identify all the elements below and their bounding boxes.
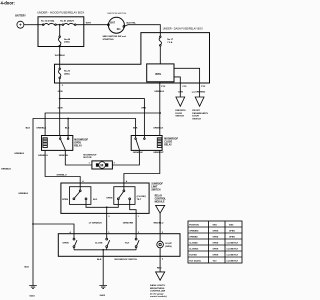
wire GRN/BLK coil feed line — [45, 113, 160, 136]
wire GRN fuse output — [59, 83, 61, 136]
svg-text:UNDER - DASH FUSE/RELAY BOX: UNDER - DASH FUSE/RELAY BOX — [163, 28, 203, 31]
svg-text:No.17: No.17 — [167, 39, 174, 41]
svg-text:No.15 (100A): No.15 (100A) — [41, 20, 55, 23]
wire ICU to passenger door pin — [174, 68, 200, 83]
svg-text:OPEN: OPEN — [62, 199, 69, 201]
svg-text:OPEN: OPEN — [213, 243, 219, 245]
svg-text:LIMIT: LIMIT — [151, 187, 158, 189]
node under-hood junction — [59, 24, 61, 26]
wire GRN/YEL open relay to motor — [65, 150, 92, 165]
svg-text:RED/BLU: RED/BLU — [154, 222, 164, 224]
svg-text:7.5 A: 7.5 A — [167, 41, 173, 44]
svg-text:CLOSE/TILT: CLOSE/TILT — [227, 255, 239, 257]
svg-text:CLOSE/TILT: CLOSE/TILT — [227, 261, 239, 263]
svg-text:MODULE: MODULE — [155, 202, 165, 204]
svg-text:BLK: BLK — [97, 259, 102, 261]
node GRN junction — [59, 98, 61, 100]
svg-text:WHT: WHT — [86, 23, 92, 25]
wire ICU to driver door pin — [174, 77, 180, 83]
svg-text:OPEN: OPEN — [74, 143, 81, 145]
svg-text:CLOSING: CLOSING — [189, 249, 199, 251]
svg-text:4-door:: 4-door: — [1, 1, 15, 6]
svg-text:GRN: GRN — [58, 91, 63, 93]
svg-text:MOONROOF SWITCH: MOONROOF SWITCH — [115, 259, 138, 261]
svg-text:DOOR: DOOR — [175, 113, 182, 115]
fuse No.44 (15A) vertical — [59, 25, 61, 36]
wire GRN/BLK from P10 to close relay coil — [159, 83, 161, 136]
svg-text:GRN: GRN — [58, 107, 63, 109]
svg-text:DOOR: DOOR — [192, 116, 199, 118]
svg-text:M: M — [100, 163, 103, 167]
wire GRN/RED to front passenger's door switch — [199, 83, 201, 97]
svg-text:(+) GRN/RED: (+) GRN/RED — [192, 92, 206, 94]
svg-text:FRONT: FRONT — [192, 110, 200, 112]
wire GRN to driver's door switch — [179, 83, 181, 97]
svg-text:OPEN: OPEN — [229, 237, 235, 239]
svg-text:(15A): (15A) — [64, 41, 70, 44]
svg-text:BLK: BLK — [133, 127, 138, 129]
svg-text:GRN/BLK: GRN/BLK — [18, 193, 28, 195]
svg-text:CLOSE/TILT: CLOSE/TILT — [227, 243, 239, 245]
svg-text:TILT: TILT — [125, 242, 130, 244]
svg-text:BAT: BAT — [110, 21, 115, 24]
svg-text:DRIVER'S: DRIVER'S — [175, 110, 186, 112]
front passenger's door switch arrow — [195, 97, 204, 106]
svg-text:BLK: BLK — [65, 127, 70, 129]
svg-text:OPEN: OPEN — [106, 197, 113, 199]
switch contact OPEN — [73, 234, 75, 239]
svg-text:CONTROL: CONTROL — [155, 199, 167, 201]
moonroof close relay — [131, 136, 162, 151]
svg-text:(20A): (20A) — [64, 73, 70, 76]
svg-text:GRN: GRN — [178, 92, 183, 94]
wire LT GRN/BLK limit to switch — [106, 213, 108, 233]
svg-text:LIGHT: LIGHT — [165, 243, 172, 245]
svg-text:MOONROOF: MOONROOF — [164, 139, 178, 141]
node GRN/BLK junction — [159, 112, 161, 114]
svg-text:GRN/BLK: GRN/BLK — [133, 152, 143, 154]
svg-text:OPENING: OPENING — [189, 231, 199, 233]
svg-text:CLOSE: CLOSE — [95, 242, 103, 244]
svg-text:GRN/BLK: GRN/BLK — [36, 127, 46, 129]
svg-text:BRIGHTNESS: BRIGHTNESS — [150, 288, 165, 290]
svg-text:OPEN: OPEN — [229, 231, 235, 233]
wire BLK to ground — [102, 256, 104, 285]
svg-text:BATTERY: BATTERY — [15, 15, 26, 18]
svg-text:(in the gauge: (in the gauge — [150, 292, 164, 295]
svg-text:INTG: INTG — [155, 73, 161, 76]
switch contact TILT — [135, 234, 137, 239]
ground G402 — [99, 286, 107, 289]
node BLK junction open relay — [67, 118, 69, 120]
moonroof open relay — [42, 136, 73, 151]
sunroof limit switch box — [61, 183, 149, 213]
svg-text:SLD: SLD — [93, 199, 98, 201]
svg-text:TILT (SLDG): TILT (SLDG) — [189, 261, 201, 263]
svg-text:OPEN: OPEN — [213, 249, 219, 251]
svg-text:TILTING: TILTING — [189, 255, 197, 257]
svg-text:SWITCH: SWITCH — [175, 116, 184, 118]
wire battery to under-hood box — [24, 24, 38, 26]
svg-text:CLOSE: CLOSE — [164, 142, 172, 144]
svg-text:GRN: GRN — [141, 107, 146, 109]
svg-text:OPEN: OPEN — [62, 242, 69, 244]
integrated control unit INTG — [147, 64, 174, 82]
switch contact CLOSE — [106, 234, 108, 239]
wire GRN/BLK to moonroof switch — [33, 224, 74, 234]
svg-text:MOTOR: MOTOR — [83, 157, 92, 159]
svg-text:GRN/BLU: GRN/BLU — [57, 175, 67, 177]
svg-text:GRN/BLU: GRN/BLU — [38, 155, 48, 157]
wire WHT/BLK under-hood to under-dash — [59, 47, 61, 64]
switch common bus — [74, 249, 136, 251]
svg-text:LT GRN/BLK: LT GRN/BLK — [89, 222, 103, 224]
svg-text:OPENED: OPENED — [189, 237, 198, 239]
position table — [188, 221, 242, 263]
svg-text:SEE IGNITION SW and: SEE IGNITION SW and — [103, 36, 127, 38]
svg-text:OPEN: OPEN — [213, 255, 219, 257]
fuse No.20 (20A) in under-dash box — [59, 64, 61, 68]
slide limit switch — [70, 187, 91, 205]
wire RED to dash lights controller — [159, 256, 161, 272]
tilt limit switch — [114, 187, 135, 205]
ground G401 — [29, 286, 37, 289]
node limit switch junction — [106, 206, 108, 208]
svg-text:(CLOSE): (CLOSE) — [137, 196, 146, 198]
svg-text:BLK: BLK — [25, 266, 30, 268]
svg-text:IGNITION SWITCH: IGNITION SWITCH — [107, 13, 126, 15]
svg-text:SWITCH: SWITCH — [151, 190, 160, 192]
svg-text:BLK: BLK — [26, 127, 31, 129]
svg-text:G402: G402 — [100, 294, 106, 297]
svg-text:DASH LIGHTS: DASH LIGHTS — [150, 284, 165, 287]
svg-text:control module): control module) — [150, 295, 167, 298]
wire GRN/BLK close relay to motor — [112, 150, 139, 165]
wire BLK/YEL ignition to under-dash box — [125, 25, 161, 33]
wire GRN/BLU open relay coil to limit switch — [45, 150, 80, 190]
svg-text:CLOSED: CLOSED — [189, 243, 198, 245]
svg-text:SUNROOF: SUNROOF — [151, 184, 163, 186]
svg-text:GRN/WHT: GRN/WHT — [153, 152, 164, 154]
svg-text:CONTROLLER: CONTROLLER — [150, 291, 166, 293]
svg-text:GRN/BLK: GRN/BLK — [14, 153, 24, 155]
svg-text:BLK/YEL: BLK/YEL — [127, 23, 137, 25]
wire GRN to close relay contact — [60, 99, 145, 136]
light (illumination) — [159, 234, 161, 242]
svg-text:No.41 (20A)*1: No.41 (20A)*1 — [60, 20, 75, 23]
svg-text:(GRN): (GRN) — [165, 246, 172, 248]
svg-text:CLOSE/TILT: CLOSE/TILT — [227, 249, 239, 251]
svg-text:No.44: No.44 — [64, 38, 71, 41]
svg-text:GRN/BLK: GRN/BLK — [153, 127, 163, 129]
wire BLK ground line — [33, 119, 136, 286]
svg-text:RELAY: RELAY — [155, 195, 163, 198]
dash lights brightness controller arrow — [156, 272, 165, 280]
svg-text:GRN/BLK: GRN/BLK — [154, 91, 164, 93]
svg-text:G401: G401 — [29, 295, 35, 298]
svg-text:No.20: No.20 — [64, 71, 71, 73]
fuse No.17 (7.5A) — [159, 33, 161, 37]
svg-text:RED: RED — [157, 268, 162, 270]
wire GRN/ORN limit to switch — [135, 213, 137, 233]
svg-text:MOONROOF: MOONROOF — [74, 140, 88, 142]
wire ICU bottom to P10 — [159, 82, 161, 83]
svg-text:TILT: TILT — [137, 199, 142, 201]
svg-text:MOONROOF: MOONROOF — [83, 154, 97, 156]
svg-text:GRN/ORN: GRN/ORN — [123, 222, 134, 224]
svg-text:RELAY: RELAY — [164, 144, 172, 147]
moonroof switch box — [58, 234, 180, 257]
svg-text:UNDER - HOOD FUSE/RELAY BOX: UNDER - HOOD FUSE/RELAY BOX — [37, 10, 84, 14]
driver's door switch arrow — [176, 97, 185, 106]
svg-text:RELAY: RELAY — [74, 145, 82, 148]
svg-text:GRN/BLK: GRN/BLK — [1, 169, 11, 171]
wire GRN/WHT close relay coil to limit switch — [124, 150, 160, 190]
svg-text:STARTING: STARTING — [103, 38, 114, 41]
svg-text:GRN/YEL: GRN/YEL — [59, 155, 69, 157]
svg-text:SWITCH: SWITCH — [192, 119, 201, 121]
svg-text:WHT/BLK: WHT/BLK — [55, 55, 66, 57]
wire to ignition switch WHT — [76, 24, 108, 26]
svg-text:OPEN: OPEN — [213, 231, 219, 233]
svg-text:POSITION: POSITION — [189, 225, 199, 227]
svg-text:OPEN: OPEN — [213, 237, 219, 239]
svg-text:PASSENGER'S: PASSENGER'S — [192, 112, 208, 115]
